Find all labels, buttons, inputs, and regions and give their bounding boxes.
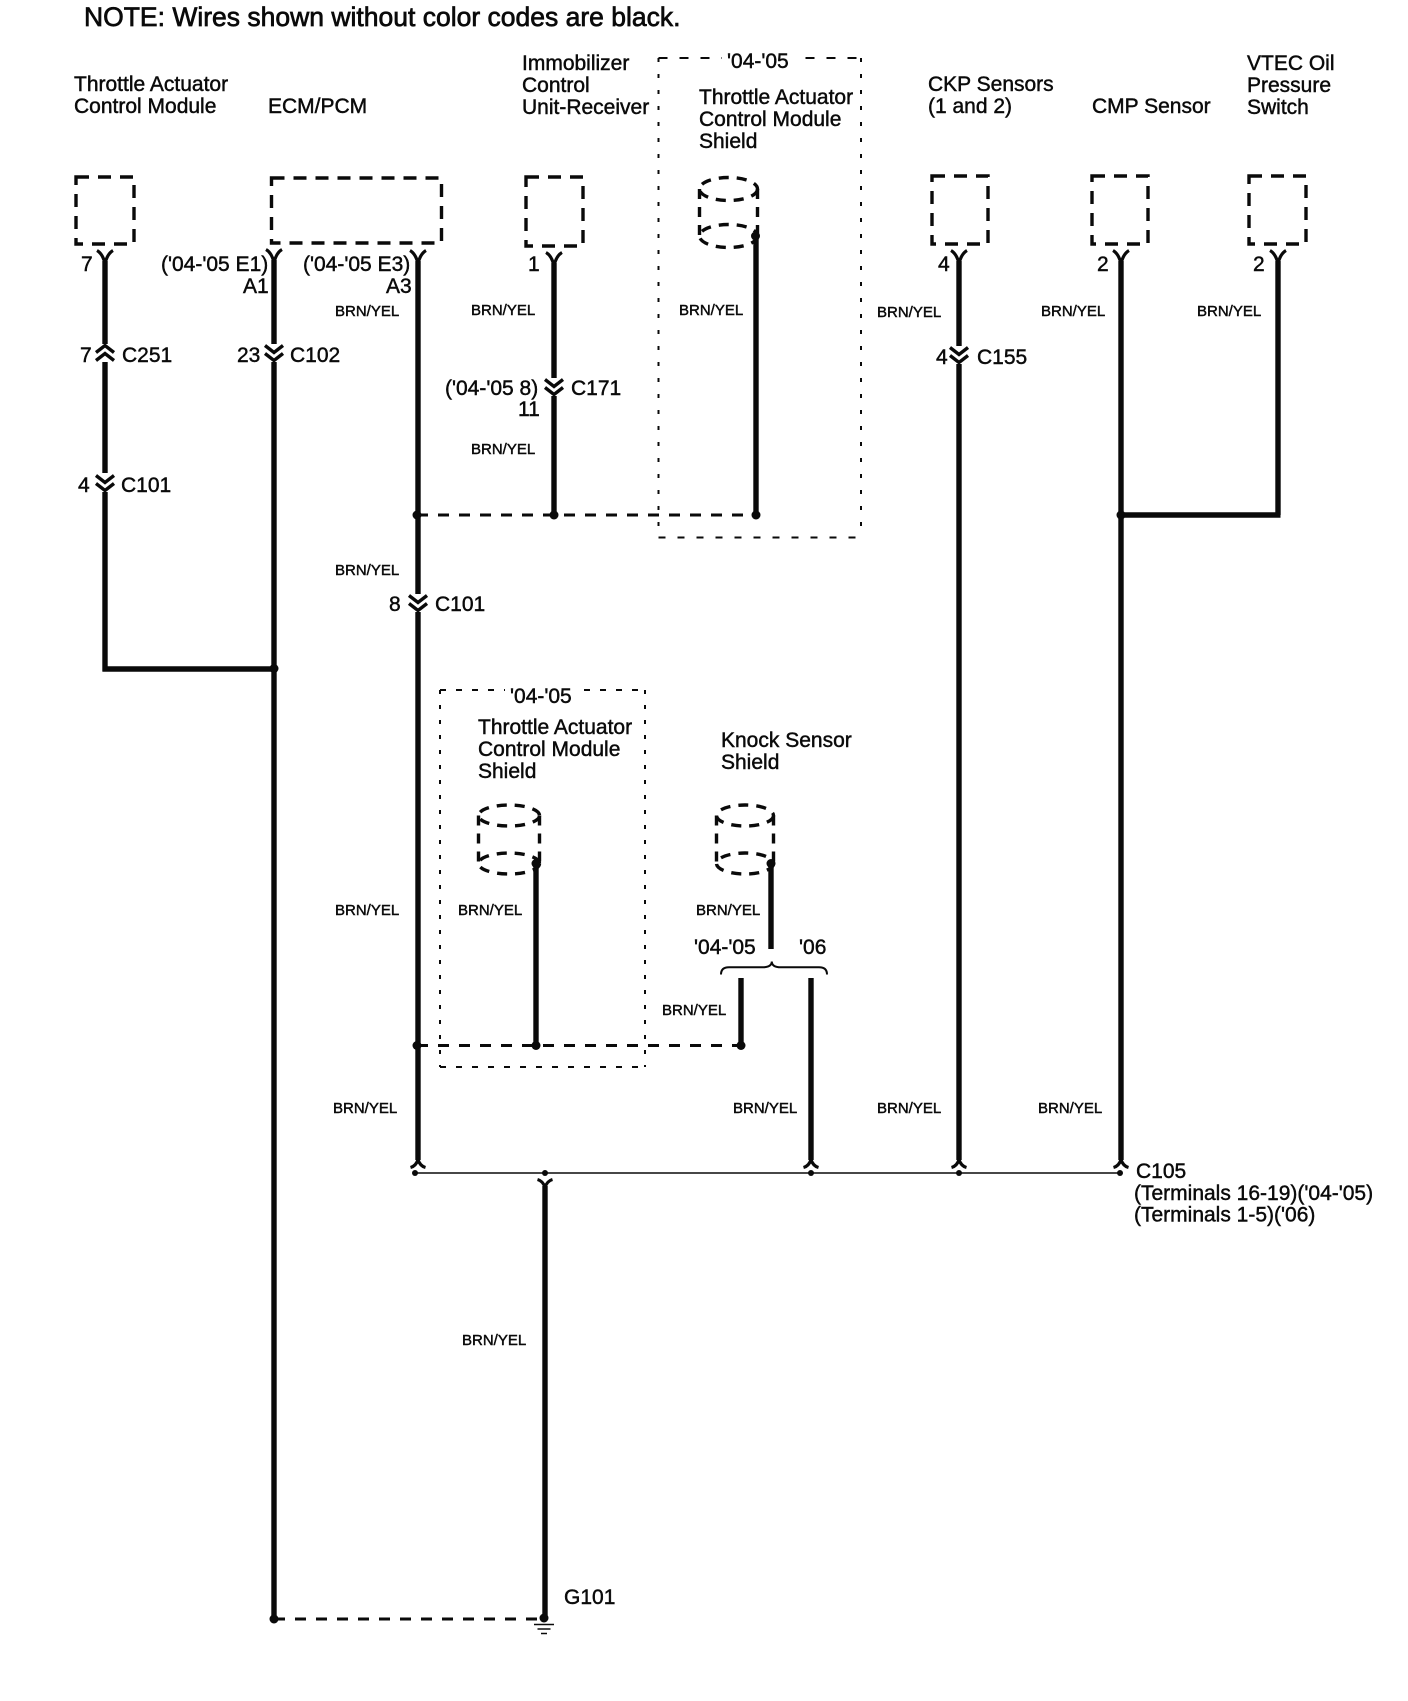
connector box Immobilizer Control Unit-Receiver <box>526 177 583 246</box>
wire CMP <box>1113 251 1129 1168</box>
svg-text:BRN/YEL: BRN/YEL <box>1041 303 1105 320</box>
svg-text:Knock Sensor: Knock Sensor <box>721 729 852 752</box>
svg-text:A3: A3 <box>386 275 412 298</box>
svg-text:Throttle Actuator: Throttle Actuator <box>478 716 632 739</box>
shield cylinder top <box>700 178 761 248</box>
svg-text:(Terminals 16-19)('04-'05): (Terminals 16-19)('04-'05) <box>1134 1182 1373 1205</box>
svg-text:A1: A1 <box>243 275 269 298</box>
svg-text:C101: C101 <box>435 593 485 616</box>
ground G101 <box>534 1625 554 1634</box>
wire Throttle Actuator Control Module pin 7 <box>97 251 113 672</box>
svg-text:('04-'05 E3): ('04-'05 E3) <box>303 253 410 276</box>
junction dot TACM/A1 <box>270 664 279 673</box>
svg-text:Pressure: Pressure <box>1247 74 1331 97</box>
svg-text:BRN/YEL: BRN/YEL <box>471 441 535 458</box>
svg-text:'06: '06 <box>799 936 826 959</box>
svg-text:Control Module: Control Module <box>699 108 841 131</box>
svg-text:BRN/YEL: BRN/YEL <box>696 902 760 919</box>
svg-text:NOTE: Wires shown without colo: NOTE: Wires shown without color codes ar… <box>84 2 680 32</box>
svg-text:BRN/YEL: BRN/YEL <box>877 304 941 321</box>
svg-text:7: 7 <box>80 344 92 367</box>
svg-text:Switch: Switch <box>1247 96 1309 119</box>
svg-text:(Terminals 1-5)('06): (Terminals 1-5)('06) <box>1134 1204 1315 1227</box>
svg-text:('04-'05 E1): ('04-'05 E1) <box>161 253 268 276</box>
svg-text:Throttle Actuator: Throttle Actuator <box>74 73 228 96</box>
wire shield top to dashed bus <box>753 238 758 515</box>
svg-text:1: 1 <box>528 253 540 276</box>
connector box CMP Sensor <box>1092 176 1148 244</box>
wire knock 04-05 branch <box>738 978 743 1046</box>
svg-text:4: 4 <box>938 253 950 276</box>
shield cylinder middle <box>479 805 541 874</box>
svg-text:BRN/YEL: BRN/YEL <box>679 302 743 319</box>
wire VTEC <box>1121 251 1286 516</box>
connector C251 <box>80 344 172 367</box>
svg-text:C101: C101 <box>121 474 171 497</box>
svg-text:(1 and 2): (1 and 2) <box>928 95 1012 118</box>
shield cylinder knock sensor <box>717 805 776 874</box>
svg-text:7: 7 <box>81 253 93 276</box>
bracket knock branches <box>721 962 827 975</box>
svg-text:CMP Sensor: CMP Sensor <box>1092 95 1211 118</box>
wire knock 06 branch <box>804 978 819 1168</box>
svg-text:BRN/YEL: BRN/YEL <box>471 302 535 319</box>
connector box CKP Sensors <box>932 176 988 244</box>
wire G101 <box>538 1180 553 1619</box>
svg-text:Shield: Shield <box>478 760 536 783</box>
svg-text:Immobilizer: Immobilizer <box>522 52 629 75</box>
svg-text:'04-'05: '04-'05 <box>727 50 789 73</box>
dashed bus bottom y1619 <box>270 1614 549 1624</box>
wire Immobilizer pin 1 <box>546 253 562 516</box>
C105 bus line <box>412 1170 1123 1176</box>
svg-text:11: 11 <box>518 398 540 421</box>
svg-text:BRN/YEL: BRN/YEL <box>335 303 399 320</box>
label C105 terminals <box>1134 1160 1373 1227</box>
svg-text:C105: C105 <box>1136 1160 1186 1183</box>
wire horizontal TACM to ECM A1 junction <box>103 666 275 671</box>
wire ECM A1 <box>266 250 282 1620</box>
dashed bus y1045 <box>413 1041 746 1050</box>
svg-text:BRN/YEL: BRN/YEL <box>335 902 399 919</box>
svg-text:4: 4 <box>78 474 90 497</box>
svg-text:'04-'05: '04-'05 <box>510 685 572 708</box>
svg-text:2: 2 <box>1097 253 1109 276</box>
svg-text:2: 2 <box>1253 253 1265 276</box>
svg-text:BRN/YEL: BRN/YEL <box>458 902 522 919</box>
junction dot CMP/VTEC <box>1117 511 1126 520</box>
svg-text:('04-'05 8): ('04-'05 8) <box>445 377 538 400</box>
svg-text:BRN/YEL: BRN/YEL <box>877 1100 941 1117</box>
svg-text:4: 4 <box>936 346 948 369</box>
svg-text:C171: C171 <box>571 377 621 400</box>
svg-text:C155: C155 <box>977 346 1027 369</box>
svg-text:BRN/YEL: BRN/YEL <box>1197 303 1261 320</box>
svg-text:CKP Sensors: CKP Sensors <box>928 73 1054 96</box>
svg-text:Control Module: Control Module <box>478 738 620 761</box>
svg-text:BRN/YEL: BRN/YEL <box>733 1100 797 1117</box>
svg-text:Control: Control <box>522 74 590 97</box>
svg-text:'04-'05: '04-'05 <box>694 936 756 959</box>
svg-text:BRN/YEL: BRN/YEL <box>1038 1100 1102 1117</box>
svg-text:8: 8 <box>389 593 401 616</box>
connector box VTEC Oil Pressure Switch <box>1249 176 1306 244</box>
connector C155 <box>936 346 1027 369</box>
wire CKP <box>951 251 967 1168</box>
svg-text:Unit-Receiver: Unit-Receiver <box>522 96 649 119</box>
svg-text:BRN/YEL: BRN/YEL <box>462 1332 526 1349</box>
svg-text:Control Module: Control Module <box>74 95 216 118</box>
svg-text:Shield: Shield <box>721 751 779 774</box>
svg-text:C251: C251 <box>122 344 172 367</box>
dashed bus y515 <box>413 511 761 520</box>
svg-text:23: 23 <box>237 344 260 367</box>
connector C102 <box>237 344 340 367</box>
connector box ECM/PCM <box>272 178 442 243</box>
wire shield middle <box>533 865 538 1046</box>
svg-text:BRN/YEL: BRN/YEL <box>333 1100 397 1117</box>
wire ECM A3 <box>410 251 426 1168</box>
wire knock shield <box>768 865 773 949</box>
svg-text:C102: C102 <box>290 344 340 367</box>
connector C171 <box>445 377 621 421</box>
svg-text:VTEC Oil: VTEC Oil <box>1247 52 1335 75</box>
dashed region box 04-05 middle <box>440 680 645 1067</box>
svg-text:BRN/YEL: BRN/YEL <box>335 562 399 579</box>
connector C101 (pin 4) <box>78 474 171 497</box>
svg-text:Throttle Actuator: Throttle Actuator <box>699 86 853 109</box>
dashed region box 04-05 top <box>659 46 862 538</box>
connector C101 (pin 8) <box>389 593 485 616</box>
connector box Throttle Actuator Control Module <box>76 177 134 244</box>
svg-text:Shield: Shield <box>699 130 757 153</box>
svg-text:ECM/PCM: ECM/PCM <box>268 95 367 118</box>
svg-text:BRN/YEL: BRN/YEL <box>662 1002 726 1019</box>
svg-text:G101: G101 <box>564 1586 615 1609</box>
